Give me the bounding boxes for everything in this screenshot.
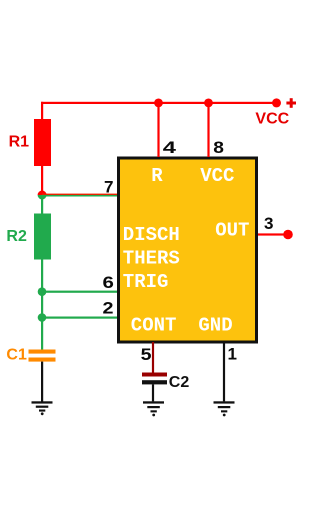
- svg-text:CONT: CONT: [131, 315, 177, 337]
- svg-text:GND: GND: [198, 315, 232, 337]
- wire R2 bottom down to C1: [41, 260, 43, 351]
- svg-text:6: 6: [103, 273, 114, 292]
- svg-text:C1: C1: [6, 347, 27, 364]
- svg-text:VCC: VCC: [200, 165, 234, 187]
- svg-text:DISCH: DISCH: [123, 224, 180, 246]
- node junction dot pin6: [38, 287, 47, 296]
- svg-text:1: 1: [228, 345, 237, 364]
- node junction dot half red half green: [38, 191, 47, 196]
- wire C2 to ground: [152, 384, 154, 401]
- VCC plus sign: [286, 98, 296, 108]
- ground symbol left: [32, 401, 53, 415]
- svg-text:VCC: VCC: [255, 111, 289, 128]
- svg-text:R2: R2: [6, 228, 27, 245]
- svg-text:R1: R1: [9, 134, 30, 151]
- capacitor C1 plates: [29, 350, 56, 354]
- resistor R2: [34, 214, 51, 260]
- wire corner down to R1 top: [41, 102, 43, 120]
- svg-text:R: R: [151, 165, 163, 187]
- wire pin1 vertical black: [223, 342, 225, 401]
- wire C1 to ground: [41, 362, 43, 402]
- node VCC terminal dot: [272, 98, 281, 107]
- svg-text:TRIG: TRIG: [123, 271, 169, 293]
- wire pin4 vertical: [157, 103, 159, 157]
- svg-text:3: 3: [264, 214, 274, 233]
- wire pin6 to IC: [42, 291, 118, 293]
- wire pin5 vertical dark red: [152, 342, 154, 373]
- resistor R1: [34, 119, 51, 166]
- svg-text:8: 8: [213, 138, 224, 157]
- wire pin7 red over green to IC: [42, 194, 118, 195]
- svg-text:C2: C2: [169, 374, 190, 391]
- svg-text:4: 4: [163, 138, 177, 157]
- junction dot pin4 on rail: [154, 99, 163, 108]
- ground symbol middle: [143, 401, 164, 416]
- node junction dot pin2: [38, 313, 47, 322]
- wire VCC rail top horizontal: [41, 102, 277, 104]
- svg-text:THERS: THERS: [123, 247, 180, 269]
- node OUT terminal dot: [283, 230, 293, 240]
- wire pin2 to IC: [42, 317, 118, 319]
- wire node to R2: [41, 198, 43, 214]
- wire pin8 vertical: [207, 103, 209, 157]
- junction dot pin8 on rail: [204, 99, 213, 108]
- svg-text:5: 5: [141, 345, 152, 364]
- svg-text:OUT: OUT: [215, 220, 249, 242]
- ground symbol right: [214, 401, 235, 416]
- wire R1 bottom to node: [41, 166, 43, 192]
- wire pin3 OUT: [258, 233, 288, 235]
- capacitor C2 plates: [142, 373, 167, 377]
- svg-text:7: 7: [104, 177, 114, 196]
- svg-text:2: 2: [103, 299, 114, 318]
- IC U1 555 timer body: [119, 158, 257, 342]
